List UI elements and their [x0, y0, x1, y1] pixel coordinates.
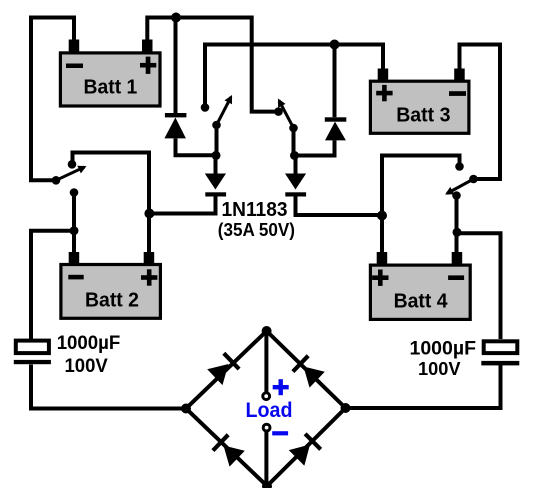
svg-text:1N1183: 1N1183 — [222, 199, 288, 221]
svg-text:Load: Load — [246, 399, 293, 422]
svg-text:Batt 4: Batt 4 — [394, 291, 449, 313]
svg-text:1000µF: 1000µF — [410, 338, 477, 360]
svg-text:Batt 1: Batt 1 — [84, 77, 138, 99]
svg-text:Batt 3: Batt 3 — [396, 104, 450, 126]
svg-text:Batt 2: Batt 2 — [85, 290, 139, 312]
svg-text:100V: 100V — [418, 359, 461, 379]
svg-text:(35A 50V): (35A 50V) — [218, 220, 295, 240]
svg-text:100V: 100V — [65, 355, 108, 377]
svg-text:1000µF: 1000µF — [57, 332, 121, 354]
